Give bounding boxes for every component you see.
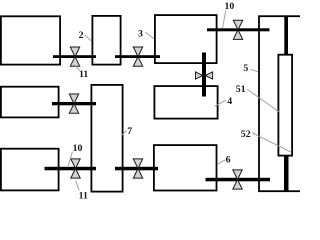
svg-text:10: 10 (73, 143, 83, 154)
svg-text:51: 51 (236, 84, 246, 95)
svg-text:4: 4 (227, 96, 232, 107)
svg-text:3: 3 (138, 28, 143, 39)
svg-text:11: 11 (79, 69, 88, 80)
svg-text:2: 2 (79, 30, 84, 41)
svg-text:6: 6 (226, 155, 231, 166)
svg-text:11: 11 (79, 190, 88, 200)
svg-text:5: 5 (243, 63, 248, 74)
svg-text:52: 52 (241, 129, 251, 140)
svg-text:10: 10 (225, 1, 235, 12)
svg-text:7: 7 (127, 126, 132, 137)
